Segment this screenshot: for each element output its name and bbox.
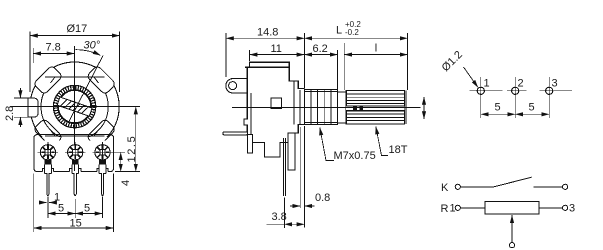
svg-text:5: 5	[529, 102, 535, 114]
svg-text:3: 3	[552, 78, 558, 90]
svg-text:R: R	[441, 203, 449, 215]
svg-text:7.8: 7.8	[46, 42, 61, 54]
svg-text:Ø17: Ø17	[67, 23, 88, 35]
svg-text:14.8: 14.8	[257, 27, 278, 39]
svg-text:12.5: 12.5	[126, 135, 138, 163]
svg-text:L: L	[336, 25, 342, 37]
svg-text:l: l	[375, 43, 377, 55]
svg-text:2: 2	[518, 78, 524, 90]
svg-text:15: 15	[70, 218, 82, 230]
svg-text:3.8: 3.8	[272, 211, 287, 223]
svg-text:1: 1	[450, 203, 456, 215]
svg-text:M7x0.75: M7x0.75	[334, 150, 376, 162]
svg-text:0.8: 0.8	[315, 192, 330, 204]
svg-text:18T: 18T	[389, 144, 408, 156]
svg-text:5: 5	[58, 203, 64, 215]
svg-text:1: 1	[484, 78, 490, 90]
svg-text:11: 11	[271, 43, 282, 55]
svg-text:2.8: 2.8	[4, 106, 16, 121]
svg-text:6.2: 6.2	[313, 43, 328, 55]
svg-text:5: 5	[495, 102, 501, 114]
svg-text:4: 4	[120, 180, 132, 186]
svg-text:K: K	[441, 182, 449, 194]
svg-text:-0.2: -0.2	[345, 28, 359, 37]
svg-text:30°: 30°	[84, 40, 101, 52]
svg-text:5: 5	[84, 203, 90, 215]
svg-text:3: 3	[569, 203, 575, 215]
